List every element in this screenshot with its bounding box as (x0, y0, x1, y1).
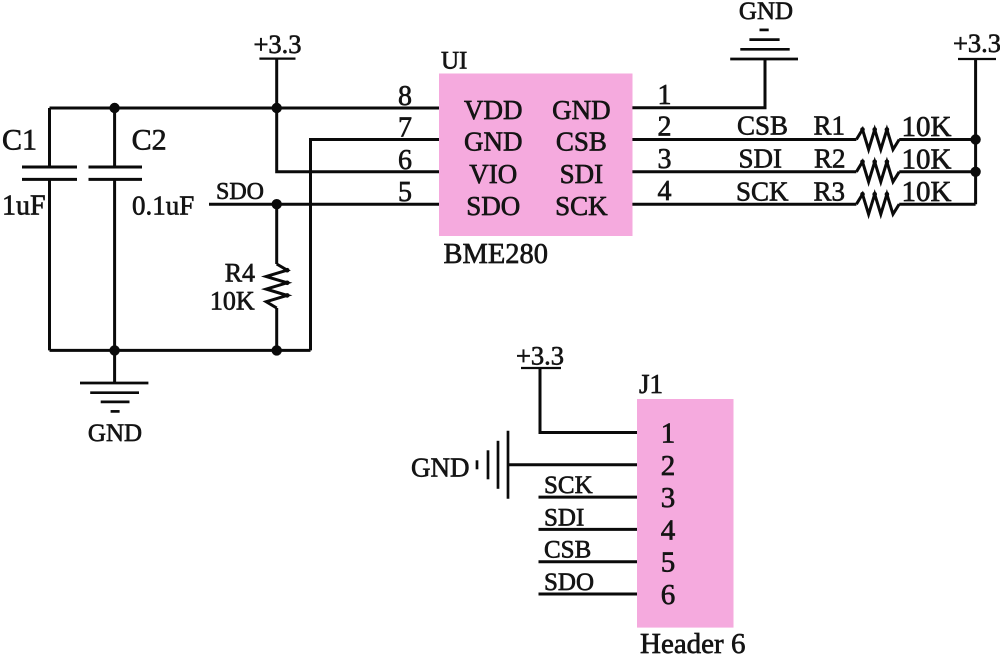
svg-text:SCK: SCK (736, 177, 789, 207)
svg-text:10K: 10K (902, 111, 952, 143)
svg-text:SDO: SDO (216, 179, 264, 205)
svg-text:CSB: CSB (544, 537, 591, 564)
svg-text:R4: R4 (225, 259, 255, 288)
svg-text:6: 6 (398, 145, 412, 176)
svg-text:8: 8 (398, 81, 412, 112)
svg-text:J1: J1 (639, 369, 663, 399)
svg-text:3: 3 (661, 482, 676, 514)
svg-text:GND: GND (411, 453, 470, 483)
svg-text:UI: UI (441, 48, 467, 75)
svg-text:BME280: BME280 (444, 239, 549, 270)
svg-text:SDO: SDO (466, 191, 520, 221)
svg-text:C1: C1 (2, 124, 37, 157)
svg-text:2: 2 (658, 112, 672, 143)
svg-text:10K: 10K (210, 287, 255, 316)
svg-text:R2: R2 (814, 143, 846, 173)
svg-text:Header 6: Header 6 (640, 628, 745, 655)
svg-text:7: 7 (398, 113, 412, 144)
svg-text:1uF: 1uF (2, 191, 46, 222)
svg-text:SCK: SCK (544, 472, 593, 499)
svg-text:SDI: SDI (544, 504, 584, 531)
svg-text:1: 1 (658, 80, 672, 111)
svg-text:CSB: CSB (737, 111, 788, 141)
svg-text:SDI: SDI (560, 159, 604, 189)
svg-text:4: 4 (658, 176, 672, 207)
svg-text:3: 3 (658, 144, 672, 175)
svg-text:SDO: SDO (544, 569, 594, 596)
svg-text:VIO: VIO (469, 159, 517, 189)
svg-text:4: 4 (661, 514, 676, 546)
svg-text:1: 1 (661, 418, 676, 450)
svg-text:R1: R1 (814, 111, 846, 141)
svg-text:6: 6 (661, 579, 676, 611)
svg-text:2: 2 (661, 450, 676, 482)
svg-text:+3.3: +3.3 (516, 341, 564, 371)
svg-text:5: 5 (661, 547, 676, 579)
svg-text:R3: R3 (814, 177, 846, 207)
svg-text:+3.3: +3.3 (953, 28, 1000, 58)
svg-text:GND: GND (739, 0, 793, 25)
svg-text:SDI: SDI (739, 143, 783, 173)
svg-text:CSB: CSB (556, 127, 607, 157)
svg-text:VDD: VDD (464, 95, 523, 125)
svg-text:10K: 10K (902, 176, 952, 208)
svg-text:10K: 10K (902, 143, 952, 175)
svg-text:5: 5 (398, 177, 412, 208)
svg-text:SCK: SCK (555, 191, 608, 221)
svg-text:0.1uF: 0.1uF (132, 191, 194, 221)
svg-text:GND: GND (88, 420, 142, 447)
svg-text:+3.3: +3.3 (253, 29, 301, 59)
svg-text:GND: GND (464, 127, 523, 157)
svg-text:GND: GND (552, 95, 611, 125)
svg-text:C2: C2 (132, 124, 167, 157)
